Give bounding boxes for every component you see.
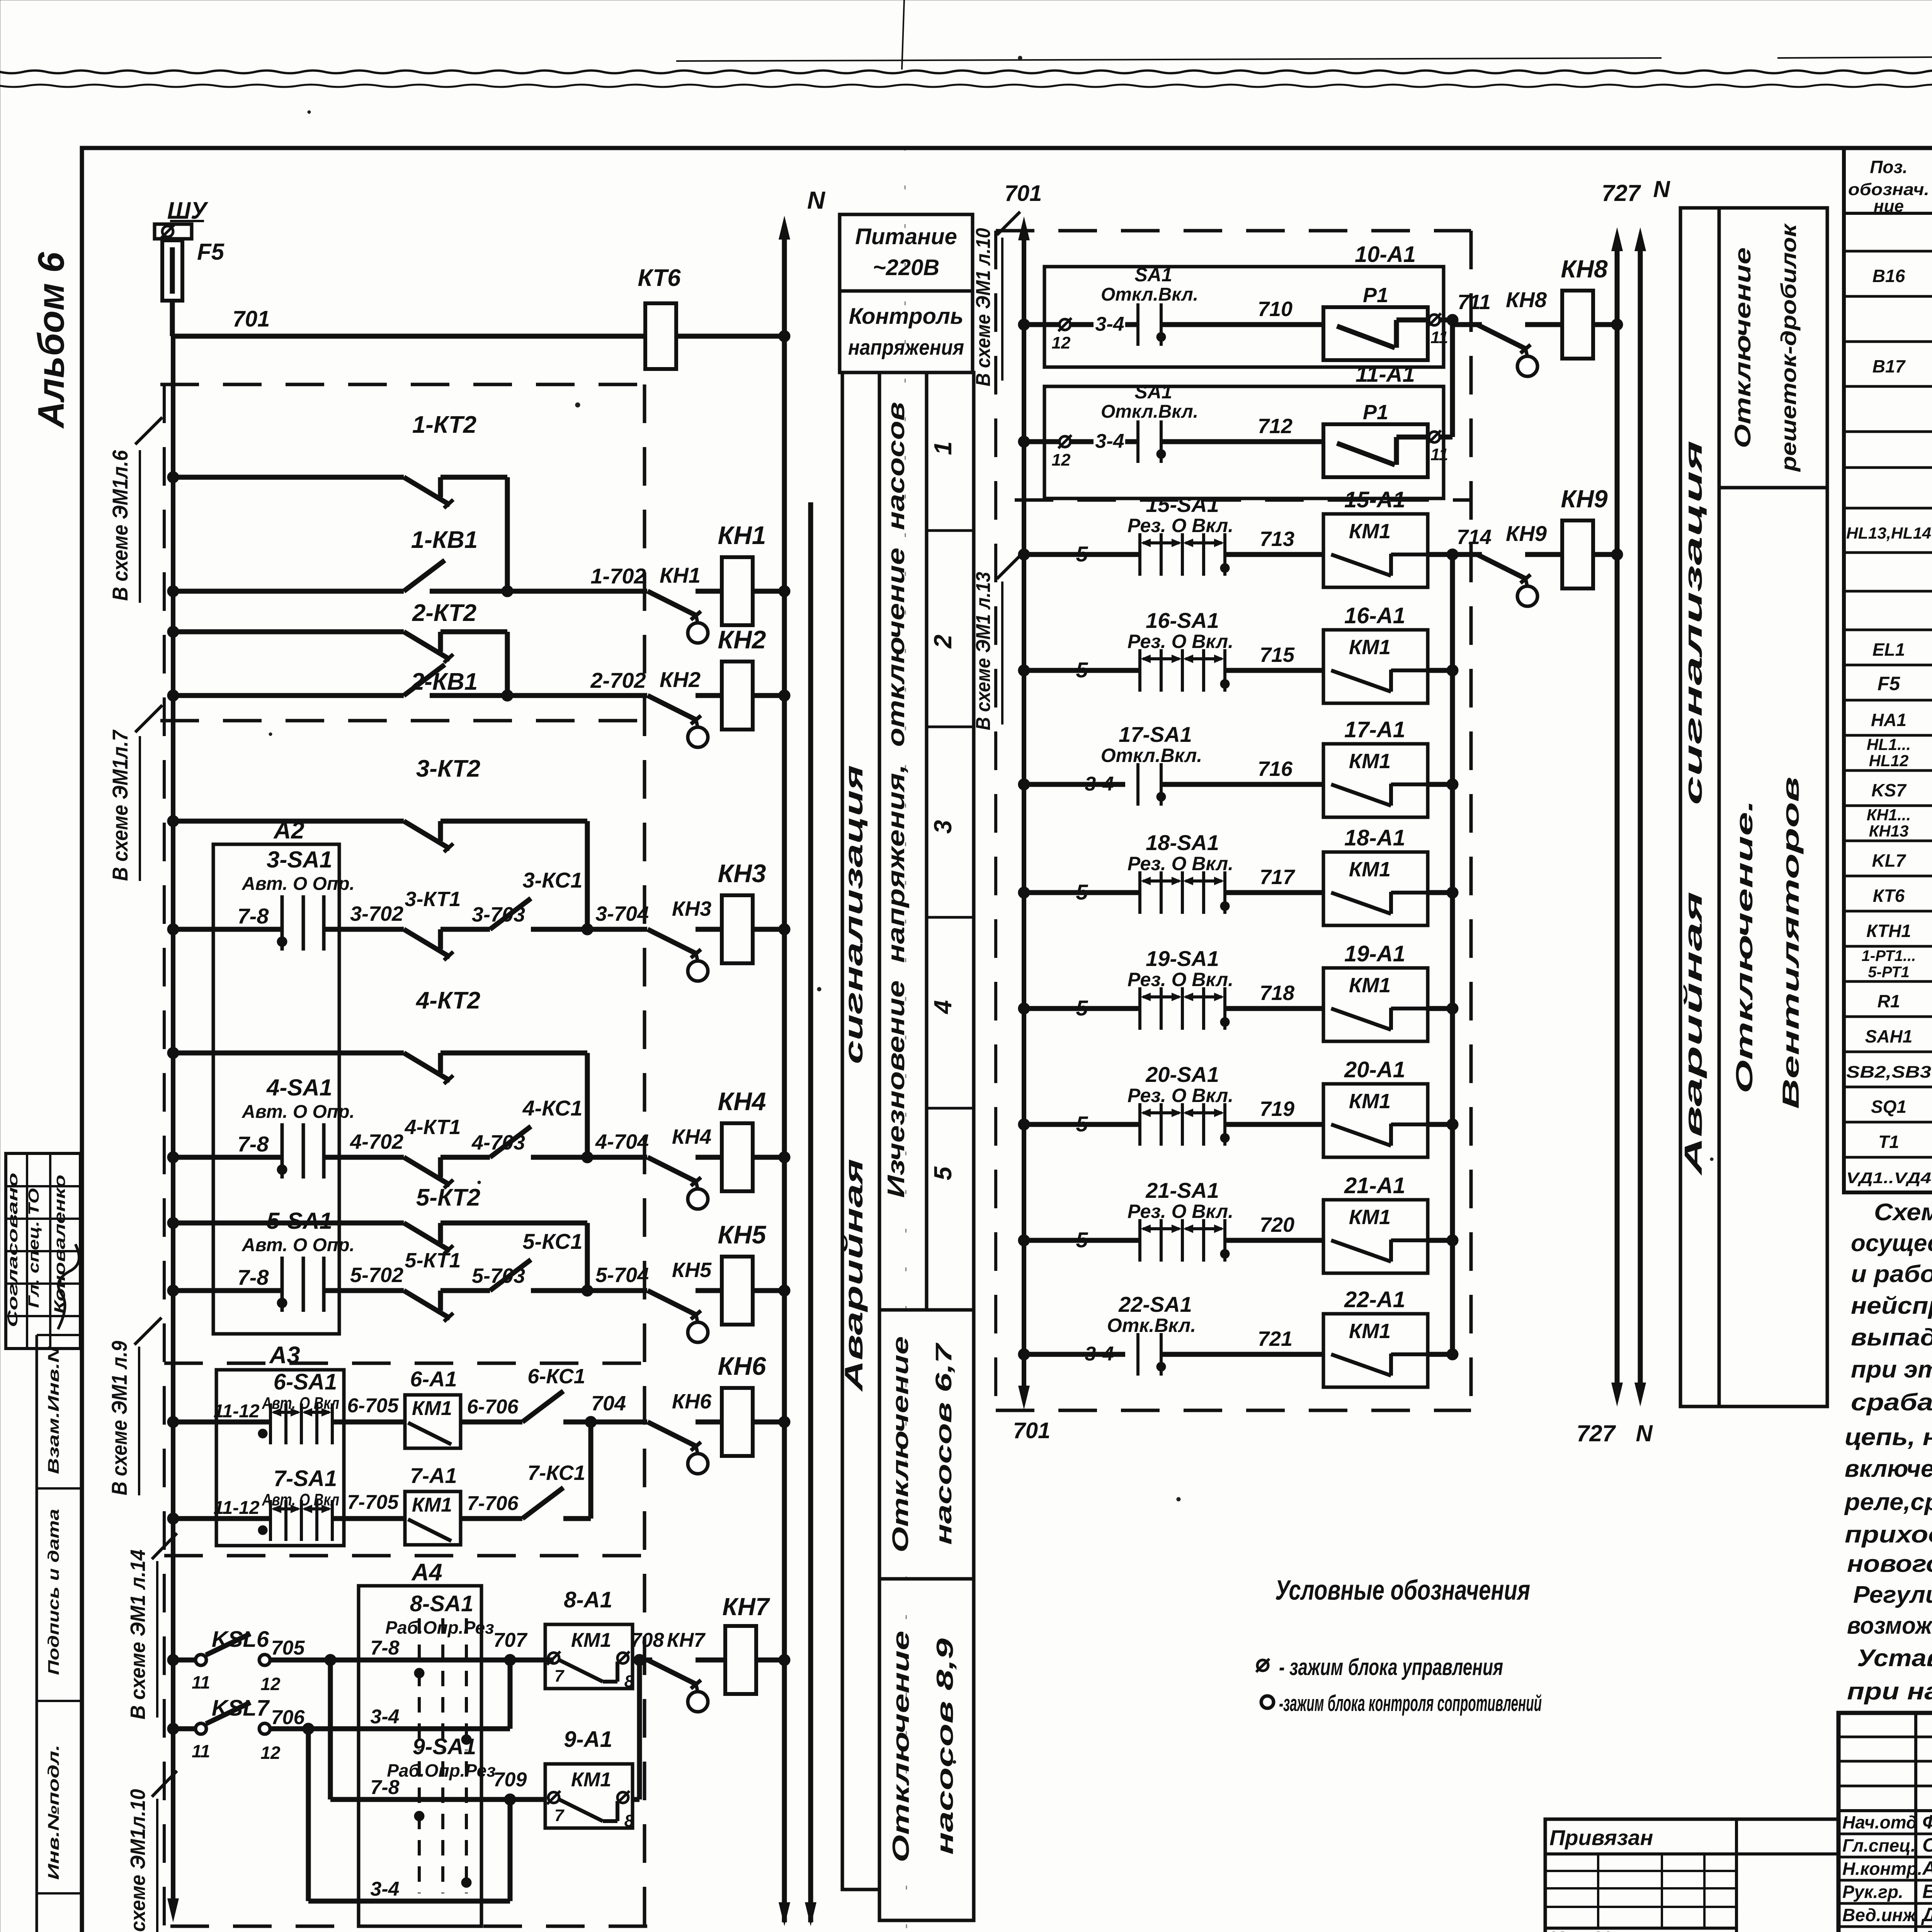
svg-text:18-SA1: 18-SA1: [1146, 830, 1219, 855]
svg-text:Инж.: Инж.: [1842, 1928, 1884, 1932]
contact 5-КТ1: [404, 1291, 450, 1318]
dashed group box В схеме ЭМ1л.6: [160, 383, 645, 386]
svg-text:1-РТ1...: 1-РТ1...: [1862, 947, 1916, 964]
svg-text:Обозная: Обозная: [1922, 1834, 1932, 1856]
svg-text:Аварийная сигнализация: Аварийная сигнализация: [839, 765, 868, 1392]
terminal 11 row 10: [1429, 315, 1440, 325]
svg-text:В16: В16: [1872, 266, 1905, 286]
switch 15-SA1: [1018, 549, 1030, 560]
svg-text:7-706: 7-706: [467, 1492, 519, 1515]
svg-text:В схеме ЭМ1 л.14: В схеме ЭМ1 л.14: [126, 1549, 150, 1719]
svg-text:712: 712: [1258, 415, 1293, 438]
svg-text:3-КТ2: 3-КТ2: [416, 755, 480, 782]
svg-text:Инв.№: Инв.№: [1549, 1928, 1617, 1932]
relay coil КН5: [722, 1257, 753, 1325]
svg-text:Фролов: Фролов: [1922, 1811, 1932, 1833]
wire 9-А1 output up to 708: [633, 1797, 639, 1802]
dashed group divider above А4: [164, 1554, 650, 1558]
svg-text:Рез. О Вкл.: Рез. О Вкл.: [1128, 1085, 1233, 1106]
svg-text:7-8: 7-8: [238, 904, 269, 928]
svg-text:Условные обозначения: Условные обозначения: [1275, 1575, 1530, 1606]
svg-text:КН2: КН2: [718, 625, 766, 654]
svg-text:КМ1: КМ1: [571, 1769, 611, 1791]
block 18-А1 КМ1: [1323, 852, 1428, 925]
banner cell Отключение насосов 8,9: [879, 1579, 974, 1920]
wire 4-702: [324, 1155, 404, 1160]
svg-text:Инв.№подл.: Инв.№подл.: [45, 1745, 62, 1880]
svg-text:3-4: 3-4: [1085, 1343, 1114, 1365]
svg-text:F5: F5: [1878, 673, 1901, 694]
svg-text:8-SA1: 8-SA1: [410, 1591, 473, 1616]
svg-text:Авт. О Опр.: Авт. О Опр.: [241, 1235, 355, 1255]
chain node 711: [1447, 314, 1458, 326]
svg-text:11: 11: [192, 1741, 210, 1761]
svg-text:КН6: КН6: [718, 1352, 767, 1380]
contact КН8: [1452, 322, 1482, 327]
wire 713 row 15: [1225, 552, 1323, 557]
svg-text:напряжения: напряжения: [848, 335, 964, 359]
svg-text:1-КВ1: 1-КВ1: [411, 527, 478, 553]
svg-text:КН7: КН7: [667, 1629, 706, 1651]
svg-text:обознач.: обознач.: [1848, 180, 1929, 199]
svg-text:КН4: КН4: [718, 1087, 766, 1116]
wire 717 row 18: [1225, 890, 1323, 895]
svg-text:4-КТ2: 4-КТ2: [415, 987, 480, 1014]
svg-text:19-SA1: 19-SA1: [1146, 946, 1219, 971]
relay coil КН1: [722, 557, 753, 625]
svg-text:Альбом 6: Альбом 6: [31, 252, 72, 429]
terminal 12 row 10: [1018, 319, 1030, 330]
svg-text:КТ6: КТ6: [1873, 886, 1905, 906]
block 15-А1 КМ1: [1323, 514, 1428, 587]
svg-text:KS7: KS7: [1871, 780, 1907, 800]
wire 719 row 20: [1225, 1122, 1323, 1127]
svg-text:Вентиляторов: Вентиляторов: [1778, 777, 1804, 1109]
svg-text:Контроль: Контроль: [849, 304, 964, 329]
svg-text:насосов 6,7: насосов 6,7: [931, 1342, 956, 1545]
svg-text:2-702: 2-702: [590, 668, 646, 692]
dashed group divider above А3: [164, 1362, 645, 1365]
banner box Питание ~220В: [840, 214, 973, 291]
output node row 15: [1428, 552, 1452, 557]
svg-text:Дюкова: Дюкова: [1921, 1927, 1932, 1932]
svg-text:HL13,HL14: HL13,HL14: [1846, 524, 1931, 542]
svg-text:7-8: 7-8: [238, 1265, 269, 1289]
svg-text:В схеме ЭМ1 л.13: В схеме ЭМ1 л.13: [972, 572, 995, 730]
switch 18-SA1: [1018, 887, 1030, 898]
svg-text:КН9: КН9: [1561, 485, 1608, 513]
svg-text:Откл.Вкл.: Откл.Вкл.: [1101, 745, 1202, 766]
svg-text:3-КС1: 3-КС1: [522, 868, 582, 892]
svg-text:21-А1: 21-А1: [1344, 1173, 1405, 1198]
svg-text:11-12: 11-12: [213, 1401, 260, 1422]
svg-text:N: N: [1653, 176, 1670, 202]
dashed box middle group: [996, 229, 1471, 233]
block 22-А1 КМ1: [1323, 1314, 1428, 1387]
svg-text:2-КТ2: 2-КТ2: [412, 600, 476, 626]
svg-text:3-4: 3-4: [370, 1706, 399, 1728]
svg-text:8-А1: 8-А1: [564, 1587, 612, 1612]
svg-text:-зажим блока контроля сопротив: -зажим блока контроля сопротивлений: [1279, 1691, 1542, 1716]
svg-text:15-SA1: 15-SA1: [1146, 492, 1219, 517]
N rail left schematic: [782, 226, 787, 1922]
svg-text:R1: R1: [1878, 991, 1900, 1011]
svg-text:В схеме ЭМ1л.7: В схеме ЭМ1л.7: [108, 729, 132, 881]
svg-text:Рез. О Вкл.: Рез. О Вкл.: [1128, 969, 1233, 990]
svg-text:6-КС1: 6-КС1: [527, 1365, 585, 1388]
svg-text:КТН1: КТН1: [1866, 921, 1911, 941]
svg-text:8: 8: [624, 1811, 634, 1830]
svg-text:5: 5: [1076, 880, 1088, 904]
svg-text:1-702: 1-702: [590, 564, 646, 588]
svg-text:КМ1: КМ1: [1349, 974, 1391, 997]
switch 20-SA1: [1018, 1119, 1030, 1130]
svg-text:КН2: КН2: [660, 667, 701, 692]
relay coil КН2: [722, 662, 753, 730]
svg-text:3-704: 3-704: [595, 902, 649, 925]
svg-text:Гл.спец.: Гл.спец.: [1842, 1835, 1916, 1855]
title block main outline: [1838, 1713, 1932, 1932]
svg-text:КН5: КН5: [672, 1259, 712, 1282]
contact КН7: [648, 1660, 696, 1684]
svg-text:11: 11: [1430, 445, 1448, 464]
svg-text:при этом через указательное ре: при этом через указательное реле, недост…: [1851, 1356, 1932, 1383]
svg-text:12: 12: [1052, 451, 1071, 469]
svg-text:12: 12: [1052, 333, 1071, 352]
wire bus from ШУ: [170, 239, 175, 241]
switch 9-SA1: [328, 1660, 333, 1799]
wire 3-4 lower row: [306, 1729, 311, 1901]
dashed group bottom: [170, 1925, 650, 1928]
terminal ШУ: [155, 224, 192, 239]
svg-text:713: 713: [1260, 527, 1294, 551]
relay coil КН9: [1562, 520, 1593, 588]
svg-text:5-702: 5-702: [350, 1264, 403, 1287]
svg-text:3-4: 3-4: [1085, 773, 1114, 795]
svg-text:Аварийная сигнализация: Аварийная сигнализация: [1679, 440, 1707, 1176]
wire 7-705: [332, 1516, 405, 1521]
svg-text:выпадение блинкера не проис: выпадение блинкера не происходит , т.к. …: [1851, 1324, 1932, 1351]
contact 4-КТ1: [404, 1157, 450, 1185]
svg-text:SAH1: SAH1: [1865, 1026, 1913, 1046]
wire 716 row 17: [1161, 782, 1323, 787]
svg-text:КН4: КН4: [672, 1125, 711, 1148]
svg-text:7: 7: [554, 1806, 565, 1825]
svg-text:VД1..VД4: VД1..VД4: [1846, 1170, 1931, 1187]
wire 706 row: [270, 1726, 419, 1731]
relay contact Р1 row 10: [1323, 307, 1428, 360]
svg-text:КН8: КН8: [1561, 255, 1608, 283]
svg-text:Отключение: Отключение: [1730, 247, 1755, 448]
wire 715 row 16: [1225, 668, 1323, 673]
727 rail left schematic: [808, 502, 813, 1922]
svg-text:Авт. О Вкл: Авт. О Вкл: [262, 1490, 339, 1509]
switch 3-SA1: [167, 923, 179, 935]
svg-text:7-8: 7-8: [370, 1776, 399, 1799]
svg-text:КН3: КН3: [672, 897, 711, 920]
legend line zажим блока управления: [1257, 1660, 1268, 1671]
relay contact Р1 row 11: [1323, 424, 1428, 477]
svg-text:10-А1: 10-А1: [1355, 242, 1416, 267]
wire 7-706: [461, 1516, 522, 1521]
contact KSL6: [167, 1654, 179, 1666]
wire 3-702: [324, 927, 404, 932]
svg-text:Н.контр.: Н.контр.: [1842, 1859, 1922, 1879]
svg-text:3-4: 3-4: [370, 1878, 399, 1900]
svg-text:SB2,SB3: SB2,SB3: [1846, 1063, 1931, 1082]
switch 4-SA1: [167, 1151, 179, 1163]
rail N middle: [1638, 240, 1643, 1387]
output node row 22: [1428, 1352, 1452, 1357]
svg-text:2-КВ1: 2-КВ1: [411, 668, 478, 695]
block 17-А1 КМ1: [1323, 744, 1428, 817]
svg-text:Поз.: Поз.: [1870, 157, 1907, 177]
svg-text:701: 701: [1013, 1418, 1051, 1443]
svg-text:В схеме ЭМ1 л.10: В схеме ЭМ1 л.10: [972, 228, 995, 386]
svg-text:17-А1: 17-А1: [1344, 717, 1405, 742]
block box А2: [213, 844, 339, 1334]
svg-text:7-КС1: 7-КС1: [527, 1461, 585, 1485]
switch 5-SA1: [167, 1285, 179, 1296]
svg-text:1: 1: [929, 441, 957, 455]
contact 3-КТ2: [167, 815, 179, 827]
svg-text:~220В: ~220В: [873, 255, 940, 280]
svg-text:Вед.инж: Вед.инж: [1842, 1905, 1917, 1925]
node 3-704: [531, 927, 647, 932]
relay coil КН4: [722, 1123, 753, 1191]
rail 727 middle: [1615, 240, 1620, 1387]
svg-text:20-SA1: 20-SA1: [1145, 1062, 1219, 1087]
svg-text:KSL7: KSL7: [212, 1696, 270, 1721]
svg-text:осуществлять отстройку ат ложн: осуществлять отстройку ат ложных кратков…: [1851, 1230, 1932, 1257]
svg-text:КМ1: КМ1: [1349, 636, 1391, 659]
svg-text:Р1: Р1: [1363, 401, 1388, 424]
svg-text:при наладке и эксплуатации.: при наладке и эксплуатации.: [1847, 1678, 1932, 1705]
wire 3-4 row up to 707: [419, 1726, 510, 1731]
relay coil КН6: [722, 1388, 753, 1456]
svg-text:SA1: SA1: [1134, 264, 1172, 286]
svg-text:5-РТ1: 5-РТ1: [1868, 964, 1909, 981]
svg-text:F5: F5: [197, 239, 225, 265]
svg-text:7: 7: [554, 1667, 565, 1685]
output node row 18: [1428, 890, 1452, 895]
svg-text:Авт. О Опр.: Авт. О Опр.: [241, 874, 355, 894]
svg-text:KSL6: KSL6: [212, 1627, 269, 1652]
svg-text:Взам.Инв.N: Взам.Инв.N: [45, 1346, 62, 1474]
switch 19-SA1: [1018, 1003, 1030, 1014]
svg-text:701: 701: [1005, 181, 1042, 206]
svg-text:1-КТ2: 1-КТ2: [412, 412, 476, 438]
svg-text:4-702: 4-702: [350, 1130, 403, 1153]
block 9-А1 КМ1: [545, 1764, 633, 1828]
svg-text:5: 5: [1076, 1112, 1088, 1136]
output node row 19: [1428, 1006, 1452, 1011]
svg-text:11: 11: [1430, 328, 1448, 347]
svg-text:Уставку времени реле КТ5 приня: Уставку времени реле КТ5 принять 3с, КТН…: [1857, 1645, 1932, 1672]
svg-text:нового сигнала.: нового сигнала.: [1847, 1551, 1932, 1577]
svg-text:Гл. спец. ТО: Гл. спец. ТО: [26, 1188, 42, 1308]
block 7-А1 КМ1: [405, 1492, 461, 1545]
banner column cells 1-5: [927, 372, 974, 1310]
wire 701 top: [170, 301, 175, 336]
svg-text:8: 8: [624, 1672, 634, 1691]
svg-text:4-704: 4-704: [595, 1130, 649, 1153]
svg-text:727: 727: [1602, 180, 1641, 206]
contact 2-КВ1: [167, 690, 179, 701]
svg-text:КН9: КН9: [1506, 521, 1547, 546]
title block extension Привязан: [1545, 1819, 1838, 1932]
wire 5-702: [324, 1288, 404, 1293]
svg-text:КТ6: КТ6: [638, 265, 681, 291]
svg-text:Рез. О Вкл.: Рез. О Вкл.: [1128, 515, 1233, 536]
block 6-А1 КМ1: [405, 1395, 461, 1448]
svg-text:715: 715: [1260, 643, 1295, 667]
svg-text:КМ1: КМ1: [412, 1494, 452, 1516]
wire 4-703: [440, 1155, 490, 1160]
svg-text:HL1...: HL1...: [1867, 735, 1911, 753]
output node row 21: [1428, 1238, 1452, 1243]
contact 2-КТ2: [167, 626, 179, 638]
svg-text:цепь, необходимую для срабат: цепь, необходимую для срабатывания указа…: [1845, 1424, 1932, 1451]
fold crease vertical: [902, 0, 904, 70]
svg-text:КМ1: КМ1: [1349, 1320, 1391, 1343]
contact 5-КС1: [490, 1260, 531, 1291]
wire 705 row: [270, 1658, 419, 1663]
relay coil КН7: [725, 1626, 756, 1694]
banner column Изчезновение напряжения, отключение насосов: [879, 372, 927, 1310]
svg-text:КН1...: КН1...: [1867, 806, 1911, 824]
block 19-А1 КМ1: [1323, 968, 1428, 1041]
svg-text:6-А1: 6-А1: [410, 1367, 457, 1391]
svg-text:706: 706: [271, 1706, 305, 1729]
svg-text:3: 3: [929, 820, 957, 834]
svg-text:реле,срабатывая, размыкает це: реле,срабатывая, размыкает цепь питания …: [1844, 1489, 1932, 1515]
svg-text:7-8: 7-8: [370, 1637, 399, 1659]
svg-text:5-КТ2: 5-КТ2: [416, 1184, 480, 1211]
svg-text:720: 720: [1260, 1213, 1294, 1236]
parts table grid: [1844, 148, 1932, 1192]
svg-text:КН1: КН1: [660, 563, 701, 587]
svg-text:Привязан: Привязан: [1549, 1825, 1653, 1850]
svg-text:16-SA1: 16-SA1: [1146, 608, 1219, 633]
svg-text:НА1: НА1: [1871, 710, 1906, 730]
output node row 20: [1428, 1122, 1452, 1127]
svg-text:709: 709: [493, 1769, 527, 1791]
svg-text:Отк.Вкл.: Отк.Вкл.: [1107, 1315, 1196, 1336]
svg-text:Т1: Т1: [1878, 1132, 1899, 1152]
block 21-А1 КМ1: [1323, 1200, 1428, 1273]
svg-text:КМ1: КМ1: [1349, 520, 1391, 543]
terminal 11 row 11: [1429, 432, 1440, 442]
svg-text:707: 707: [493, 1629, 528, 1651]
svg-text:4-КТ1: 4-КТ1: [405, 1116, 461, 1139]
svg-text:Раб.Опр.Рез: Раб.Опр.Рез: [385, 1617, 494, 1638]
svg-text:Отключение.: Отключение.: [1731, 800, 1757, 1094]
right banner box outline: [1680, 208, 1827, 1406]
svg-text:705: 705: [271, 1637, 305, 1659]
svg-text:Изчезновение напряжения, отк: Изчезновение напряжения, отключение насо…: [883, 402, 910, 1198]
svg-text:20-А1: 20-А1: [1344, 1057, 1405, 1082]
svg-text:11: 11: [192, 1672, 210, 1692]
switch 21-SA1: [1018, 1235, 1030, 1246]
relay coil КН3: [722, 895, 753, 963]
svg-text:Регулируемое сопротивление R1: Регулируемое сопротивление R1 установить…: [1853, 1582, 1932, 1608]
svg-text:насосов 8,9: насосов 8,9: [932, 1638, 958, 1855]
svg-text:7-SA1: 7-SA1: [274, 1466, 337, 1491]
svg-text:Подпись и дата: Подпись и дата: [45, 1509, 62, 1675]
svg-text:716: 716: [1258, 757, 1293, 781]
svg-text:КМ1: КМ1: [571, 1629, 611, 1651]
contact 5-КТ2: [167, 1217, 179, 1229]
svg-text:В схеме ЭМ1л.6: В схеме ЭМ1л.6: [108, 450, 132, 601]
contact КН9: [1452, 552, 1482, 557]
svg-text:5: 5: [1076, 658, 1088, 682]
svg-text:6-705: 6-705: [347, 1395, 399, 1417]
svg-text:3-4: 3-4: [1095, 313, 1124, 335]
svg-text:и работает следующим образом:: и работает следующим образом: при поступ…: [1851, 1261, 1932, 1287]
wire 720 row 21: [1225, 1238, 1323, 1243]
wire 71x row 10: [1161, 322, 1323, 327]
fuse F5: [162, 240, 182, 301]
svg-text:7-705: 7-705: [347, 1491, 399, 1514]
svg-text:3-4: 3-4: [1095, 430, 1124, 452]
contact 1-КВ1: [167, 585, 179, 597]
svg-text:нейсправности получает питани: нейсправности получает питание реле КТН1…: [1851, 1293, 1932, 1319]
svg-text:21-SA1: 21-SA1: [1145, 1178, 1219, 1202]
svg-text:5-КС1: 5-КС1: [522, 1229, 582, 1253]
svg-text:6-706: 6-706: [467, 1396, 519, 1418]
svg-text:В схеме ЭМ1л.10: В схеме ЭМ1л.10: [126, 1789, 150, 1932]
svg-text:19-А1: 19-А1: [1344, 941, 1405, 966]
svg-text:Питание: Питание: [855, 224, 957, 249]
svg-text:КН6: КН6: [672, 1390, 712, 1413]
svg-text:Авт. О Вкл: Авт. О Вкл: [262, 1394, 339, 1413]
svg-text:719: 719: [1260, 1097, 1294, 1121]
svg-text:9-А1: 9-А1: [564, 1727, 612, 1752]
svg-text:Откл.Вкл.: Откл.Вкл.: [1101, 284, 1198, 305]
svg-text:КН3: КН3: [718, 859, 766, 888]
svg-text:6-SA1: 6-SA1: [274, 1369, 337, 1395]
svg-text:727: 727: [1577, 1420, 1616, 1446]
block box 11-А1: [1044, 386, 1444, 498]
svg-text:2: 2: [929, 634, 957, 649]
svg-text:22-SA1: 22-SA1: [1118, 1292, 1192, 1316]
svg-text:Р1: Р1: [1363, 284, 1388, 307]
contact 4-КС1: [490, 1126, 531, 1157]
svg-text:7-8: 7-8: [238, 1132, 269, 1156]
svg-text:5: 5: [1076, 542, 1088, 566]
svg-text:11-А1: 11-А1: [1355, 362, 1415, 387]
relay coil КН8: [1562, 291, 1593, 359]
banner box Контроль напряжения: [840, 291, 973, 372]
svg-text:710: 710: [1258, 298, 1293, 321]
contact 7-КС1: [522, 1488, 563, 1519]
legend line зажим блока контроля сопротивлений: [1261, 1696, 1274, 1708]
wire 718 row 19: [1225, 1006, 1323, 1011]
node 4-704: [531, 1155, 647, 1160]
svg-text:717: 717: [1260, 866, 1296, 889]
svg-text:N: N: [1636, 1420, 1653, 1446]
svg-text:12: 12: [260, 1743, 281, 1763]
wire 6-706: [461, 1420, 522, 1425]
title block staff rows: [1838, 1833, 1932, 1835]
svg-text:12: 12: [260, 1674, 281, 1694]
svg-text:17-SA1: 17-SA1: [1119, 722, 1192, 747]
svg-text:КН8: КН8: [1506, 287, 1547, 312]
svg-text:Рез. О Вкл.: Рез. О Вкл.: [1128, 1201, 1233, 1222]
svg-text:решеток-дробилок: решеток-дробилок: [1776, 223, 1801, 472]
wire 6-705: [332, 1420, 405, 1425]
